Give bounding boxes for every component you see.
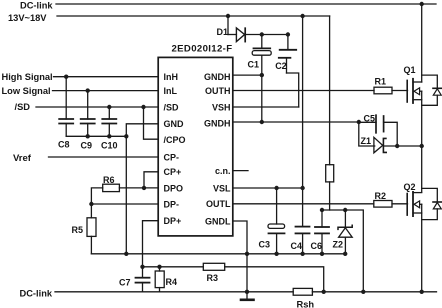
wire GND pin to logic ground drop xyxy=(126,124,158,254)
capacitor C1 xyxy=(252,35,271,76)
svg-text:C9: C9 xyxy=(81,141,93,151)
wire R2 to Q2 gate xyxy=(392,203,408,205)
node power ground rail xyxy=(91,253,345,255)
wire VSH pin xyxy=(233,106,299,108)
wire DP- pin xyxy=(91,203,158,205)
svg-text:Q2: Q2 xyxy=(404,182,416,192)
svg-text:OUTL: OUTL xyxy=(206,199,231,209)
junction InH / C8 xyxy=(64,75,68,79)
svg-text:/SD: /SD xyxy=(164,102,180,112)
svg-text:C1: C1 xyxy=(248,60,260,70)
diode Z1 zener xyxy=(374,137,386,153)
diode Q1 body diode xyxy=(422,75,442,105)
junction sense node / C7 xyxy=(140,265,144,269)
junction DC-link / Q1 drain xyxy=(420,2,424,6)
junction C9 bottom xyxy=(86,134,90,138)
junction C1 top xyxy=(260,32,264,36)
ground xyxy=(241,298,254,301)
junction rail / clamp return xyxy=(361,290,365,294)
junction CP+ / DPO wire xyxy=(142,186,146,190)
wire filter cap ground rail xyxy=(66,135,126,137)
wire GNDH pin2 to node A xyxy=(233,121,359,123)
svg-text:InH: InH xyxy=(164,72,179,82)
resistor R2 xyxy=(374,201,392,208)
wire GNDH pin1 xyxy=(233,74,262,76)
junction gnd rail / C4 xyxy=(300,252,304,256)
junction 13V rail / VSL drop xyxy=(300,14,304,18)
capacitor C8 xyxy=(59,77,73,137)
junction gnd rail / Z2 xyxy=(343,252,347,256)
wire resistor bottom to clamp node xyxy=(329,182,331,210)
svg-text:DC-link: DC-link xyxy=(20,289,53,299)
resistor unlabeled gate clamp xyxy=(326,165,334,182)
svg-text:OUTH: OUTH xyxy=(205,86,231,96)
node 13V~18V rail xyxy=(57,15,330,17)
junction C5 / Z1 right xyxy=(395,144,399,148)
wire R5 top xyxy=(90,204,92,218)
svg-text:GNDH: GNDH xyxy=(204,118,231,128)
junction C2 top xyxy=(286,32,290,36)
wire R1 to Q1 gate xyxy=(392,90,408,92)
svg-text:R1: R1 xyxy=(375,77,387,87)
junction R6 / R5 / DP- xyxy=(89,202,93,206)
junction gnd rail / C3 xyxy=(274,252,278,256)
wire GNDL to ground xyxy=(233,221,247,299)
wire Q1 source rail xyxy=(421,91,423,192)
node DC-link positive rail xyxy=(56,3,436,5)
resistor Rsh xyxy=(293,288,312,295)
svg-text:DP+: DP+ xyxy=(164,216,182,226)
svg-text:C5: C5 xyxy=(364,114,376,124)
resistor R6 xyxy=(103,184,120,191)
svg-text:2ED020I12-F: 2ED020I12-F xyxy=(172,44,233,55)
junction cap rail / gnd drop xyxy=(124,134,128,138)
svg-text:D1: D1 xyxy=(217,27,229,37)
junction C1 / GNDH pin2 wire xyxy=(260,120,264,124)
junction clamp node / Z2 xyxy=(343,208,347,212)
junction gnd rail / GNDL drop xyxy=(245,252,249,256)
junction /SD / CPO drop xyxy=(141,105,145,109)
capacitor C9 xyxy=(81,91,95,137)
transistor Q1 xyxy=(407,79,422,103)
transistor Q2 xyxy=(407,192,422,216)
junction InL / C9 xyxy=(86,88,90,92)
svg-text:R4: R4 xyxy=(166,277,178,287)
svg-text:R2: R2 xyxy=(375,191,387,201)
diode Q2 body diode xyxy=(422,188,442,219)
wire DPO pin xyxy=(119,187,158,189)
IC U1 2ED020I12-F body xyxy=(158,57,233,236)
svg-text:Q1: Q1 xyxy=(404,65,416,75)
capacitor C5 xyxy=(359,115,397,146)
svg-text:R5: R5 xyxy=(72,225,84,235)
junction gnd rail / logic gnd drop xyxy=(124,252,128,256)
junction 13V rail / D1 anode xyxy=(226,14,230,18)
wire R3 to shunt tap xyxy=(225,267,324,292)
svg-text:/CPO: /CPO xyxy=(164,135,186,145)
junction rail / sense tap xyxy=(322,290,326,294)
wire c.n. stub xyxy=(233,170,248,172)
capacitor C7 xyxy=(136,278,150,292)
resistor R5 xyxy=(87,218,96,237)
resistor R3 xyxy=(203,263,224,270)
svg-text:c.n.: c.n. xyxy=(215,166,231,176)
wire CP+ to DPO xyxy=(144,172,158,188)
svg-text:VSL: VSL xyxy=(213,183,231,193)
junction VSL / supply drop xyxy=(300,186,304,190)
wire OUTL pin to R2 xyxy=(233,203,374,205)
svg-text:Z2: Z2 xyxy=(333,240,344,250)
svg-text:Z1: Z1 xyxy=(361,136,372,146)
svg-text:C10: C10 xyxy=(101,141,118,151)
svg-text:GNDH: GNDH xyxy=(204,72,231,82)
wire Q2 source to DC-link negative xyxy=(421,204,423,291)
capacitor C2 xyxy=(279,35,296,74)
svg-text:/SD: /SD xyxy=(15,102,31,112)
svg-text:GNDL: GNDL xyxy=(205,216,231,226)
junction /SD / C10 xyxy=(107,105,111,109)
junction C10 bottom xyxy=(107,134,111,138)
wire D1 anode lead xyxy=(228,34,236,36)
diode D1 xyxy=(236,28,245,42)
svg-text:Vref: Vref xyxy=(13,153,32,164)
wire Q1 drain rail xyxy=(421,4,423,82)
svg-text:GND: GND xyxy=(164,119,185,129)
wire InH xyxy=(54,76,159,78)
wire sense node to R3 xyxy=(143,266,204,268)
wire DP+ to sense node xyxy=(143,221,159,267)
resistor R1 xyxy=(374,87,392,94)
junction Z1 / source rail xyxy=(420,144,424,148)
svg-text:Low Signal: Low Signal xyxy=(2,86,51,96)
node DC-link negative rail right of shunt xyxy=(312,291,436,293)
svg-text:DP-: DP- xyxy=(164,199,180,209)
svg-text:Rsh: Rsh xyxy=(297,299,315,308)
wire Vref to CP- xyxy=(49,156,159,158)
capacitor C3 xyxy=(268,188,285,254)
diode Z2 zener xyxy=(338,210,352,254)
svg-text:High Signal: High Signal xyxy=(2,72,53,82)
capacitor C10 xyxy=(102,107,116,136)
wire clamp node C6 Z2 xyxy=(322,210,363,292)
svg-text:R6: R6 xyxy=(103,175,115,185)
junction gnd rail / C6 xyxy=(320,252,324,256)
wire C7 top lead xyxy=(142,267,144,278)
capacitor C6 xyxy=(315,210,329,254)
wire R4 leads xyxy=(159,267,161,292)
svg-text:C2: C2 xyxy=(275,61,287,71)
wire /CPO to /SD xyxy=(144,107,159,139)
wire D1 cathode to C1 C2 xyxy=(245,34,288,36)
svg-text:C4: C4 xyxy=(291,241,303,251)
wire D1 anode drop xyxy=(227,16,229,35)
wire R6 left to DP- node xyxy=(91,188,102,204)
wire VSL pin xyxy=(233,187,303,189)
svg-text:R3: R3 xyxy=(207,273,219,283)
junction GNDL drop / DC-link rail xyxy=(245,290,249,294)
svg-text:C7: C7 xyxy=(119,278,131,288)
junction VSL / C3 xyxy=(274,186,278,190)
junction rail / Q2 source xyxy=(420,290,424,294)
junction node A xyxy=(357,120,361,124)
wire node A down to Z1 xyxy=(359,122,375,146)
svg-text:DC-link: DC-link xyxy=(20,1,53,11)
wire R5 bottom to gnd rail xyxy=(90,236,92,253)
svg-text:VSH: VSH xyxy=(212,102,231,112)
wire 13V to gate clamp resistor xyxy=(329,16,331,165)
junction clamp node / C6 xyxy=(320,208,324,212)
wire C2 bottom to VSH xyxy=(287,73,299,107)
svg-text:InL: InL xyxy=(164,86,178,96)
junction sense node / R4 xyxy=(157,265,161,269)
resistor R4 xyxy=(155,271,164,288)
wire OUTH pin to R1 xyxy=(233,90,374,92)
svg-text:13V~18V: 13V~18V xyxy=(8,13,47,23)
wire VSL supply drop xyxy=(302,16,304,227)
svg-text:C3: C3 xyxy=(259,240,271,250)
wire /SD xyxy=(36,106,158,108)
svg-text:C8: C8 xyxy=(58,140,70,150)
node DC-link negative rail left of shunt xyxy=(55,291,293,293)
capacitor C4 xyxy=(296,227,310,254)
svg-text:DPO: DPO xyxy=(164,183,184,193)
svg-text:CP-: CP- xyxy=(164,152,180,162)
wire InL xyxy=(53,90,159,92)
svg-text:CP+: CP+ xyxy=(164,167,182,177)
junction C1 / GNDH pin1 wire xyxy=(260,73,264,77)
wire C1 bottom to GNDH2 line xyxy=(261,75,263,122)
svg-text:C6: C6 xyxy=(311,241,323,251)
wire Z1 cathode to Q1 source rail xyxy=(384,145,422,147)
